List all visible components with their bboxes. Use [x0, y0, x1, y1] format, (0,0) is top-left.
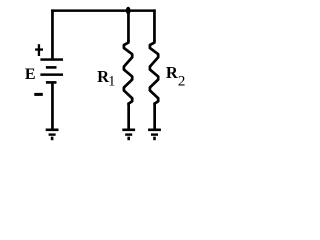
battery E plate short 1	[46, 66, 57, 69]
svg-text:1: 1	[108, 73, 115, 89]
battery E plate long 1 (+)	[40, 58, 63, 61]
wire R1 bottom to ground	[127, 103, 130, 130]
plus sign label	[35, 48, 43, 50]
ground (R1)	[122, 129, 135, 132]
resistor R1 zigzag	[124, 41, 132, 104]
minus sign label	[34, 93, 43, 96]
wire from top bus down to R2	[153, 9, 156, 42]
wire battery - to ground	[51, 84, 54, 130]
ground (R2)	[148, 129, 161, 132]
battery E plate long 2	[40, 73, 63, 76]
wire left vertical (top bus to battery +)	[51, 9, 54, 58]
wire from junction down to R1	[127, 9, 130, 42]
svg-text:2: 2	[178, 74, 186, 90]
wire R2 bottom to ground	[153, 103, 156, 130]
battery E plate short 2 (-)	[46, 81, 57, 84]
wire top horizontal bus	[51, 9, 156, 12]
svg-text:E: E	[25, 66, 36, 83]
ground (battery)	[46, 129, 59, 132]
node A junction dot	[126, 7, 131, 15]
resistor R2 zigzag	[150, 41, 158, 104]
